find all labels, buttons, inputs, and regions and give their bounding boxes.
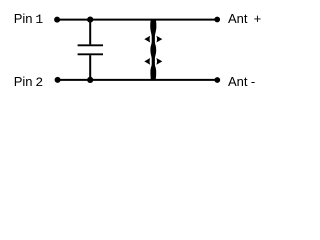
svg-text:Pin: Pin	[14, 74, 33, 89]
svg-text:Pin: Pin	[14, 11, 33, 26]
svg-text:-: -	[251, 74, 255, 89]
transformer T1 secondary arrow lower (points right)	[156, 58, 162, 65]
svg-text:Ant: Ant	[228, 74, 248, 89]
terminal dot Pin 2	[55, 77, 61, 83]
transformer T1 secondary arrow upper (points right)	[156, 36, 162, 43]
svg-text:2: 2	[35, 75, 43, 90]
capacitor C1 bottom lead	[89, 55, 91, 80]
capacitor C1 top plate	[78, 44, 103, 46]
transformer T1 primary arrow upper (points left)	[144, 36, 150, 43]
junction dot bottom (capacitor tap)	[87, 77, 93, 83]
terminal dot Ant +	[214, 17, 220, 23]
svg-text:Ant: Ant	[228, 11, 248, 26]
transformer T1 primary arrow lower (points left)	[144, 58, 150, 65]
svg-text:1: 1	[35, 12, 43, 27]
terminal dot Ant -	[214, 77, 220, 83]
wire bottom (Pin 2 to Ant -)	[58, 79, 218, 81]
capacitor C1 top lead	[89, 20, 91, 45]
transformer T1 windings and core (solid column, waisted at arrow bands)	[150, 20, 156, 80]
capacitor C1 bottom plate	[78, 53, 103, 55]
terminal dot Pin 1	[54, 17, 60, 23]
svg-text:+: +	[254, 11, 262, 26]
wire top (Pin 1 to Ant +)	[57, 19, 217, 21]
junction dot top (capacitor tap)	[87, 17, 93, 23]
